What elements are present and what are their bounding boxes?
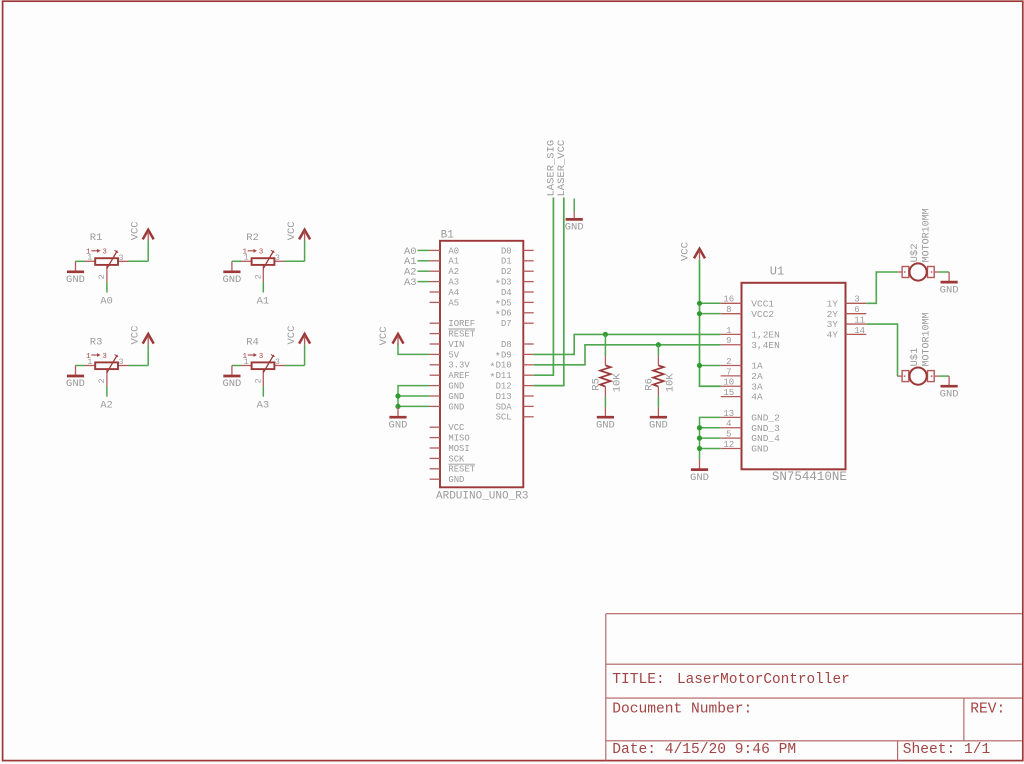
arduino pin D10 (right row 11) stub	[523, 364, 533, 366]
wire R6 bottom	[657, 396, 659, 407]
wire U1 pin 5 to GND	[700, 437, 721, 439]
motor U$2 left terminal stub	[897, 271, 902, 273]
svg-text:R6: R6	[644, 378, 656, 391]
wire VCC drop R2	[304, 241, 306, 262]
svg-text:7: 7	[726, 367, 731, 377]
potentiometer R3 pin 1 stub	[85, 365, 95, 367]
svg-text:R1: R1	[90, 232, 103, 244]
motor U$1 body circle	[910, 368, 927, 385]
arduino pin A5 (left row 5) stub	[430, 301, 440, 303]
wire VCC drop R4	[304, 345, 306, 366]
svg-text:2: 2	[254, 274, 263, 279]
power VCC symbol at R3	[143, 334, 154, 345]
svg-text:LaserMotorController: LaserMotorController	[677, 672, 850, 688]
potentiometer R1 pin 2 stub	[106, 265, 108, 282]
svg-text:AREF: AREF	[448, 371, 469, 381]
ground at U1	[690, 459, 709, 484]
junction GND at U1 pin 5	[697, 436, 702, 441]
svg-text:VCC: VCC	[286, 326, 298, 345]
svg-text:D9: D9	[501, 350, 512, 360]
svg-text:VCC: VCC	[130, 326, 142, 345]
svg-text:D10: D10	[496, 361, 512, 371]
svg-text:1,2EN: 1,2EN	[751, 330, 780, 341]
svg-text:GND: GND	[649, 419, 668, 431]
svg-text:ARDUINO_UNO_R3: ARDUINO_UNO_R3	[436, 490, 528, 502]
svg-text:GND: GND	[751, 444, 768, 455]
arduino pin D2 (right row 2) stub	[523, 270, 533, 272]
arduino pin A2 (left row 2) stub	[430, 270, 440, 272]
svg-text:1: 1	[244, 254, 249, 263]
arduino pin D6 (right row 6) stub	[523, 312, 533, 314]
U1 pin 15 (4A) stub	[721, 396, 742, 398]
svg-text:GND: GND	[448, 475, 464, 485]
motor U$2 right terminal	[928, 267, 935, 278]
svg-text:1Y: 1Y	[827, 298, 839, 309]
wire pot R1 pin3 to VCC	[128, 260, 148, 262]
svg-text:2Y: 2Y	[827, 309, 839, 320]
motor U$2 right terminal stub	[934, 271, 939, 273]
U1 pin 3 (1Y) stub	[846, 302, 867, 304]
svg-text:GND: GND	[222, 378, 241, 390]
svg-text:A2: A2	[100, 400, 113, 412]
svg-text:A5: A5	[448, 298, 459, 308]
wire net LASER_SIG (arduino D11 to label)	[534, 198, 554, 376]
svg-text:GND: GND	[690, 472, 709, 484]
wire R5 bottom	[604, 396, 606, 407]
svg-text:GND: GND	[565, 222, 584, 234]
svg-text:VCC: VCC	[680, 242, 692, 261]
U1 pin 2 (1A) stub	[721, 365, 742, 367]
U1 pin 12 (GND) stub	[721, 447, 742, 449]
svg-text:VIN: VIN	[448, 340, 464, 350]
svg-text:2A: 2A	[751, 371, 763, 382]
arduino pin A0 (left row 0) stub	[430, 249, 440, 251]
svg-text:12: 12	[723, 440, 734, 450]
junction at arduino GND row 15	[395, 404, 400, 409]
svg-text:MOSI: MOSI	[448, 444, 469, 454]
arduino pin GND (left row 15) stub	[430, 405, 440, 407]
svg-text:A2: A2	[448, 267, 459, 277]
arduino pin GND (left row 14) stub	[430, 395, 440, 397]
resistor R6 pin 2 stub	[657, 387, 659, 397]
wire net D9: arduino D9 to U1 pin 1 and R5	[534, 334, 721, 354]
junction at R5 top	[603, 332, 608, 337]
arduino pin MISO (left row 18) stub	[430, 437, 440, 439]
svg-text:1: 1	[87, 358, 92, 367]
wire U1 pin 12 to GND	[700, 447, 721, 449]
svg-text:3: 3	[275, 254, 280, 263]
svg-text:SCL: SCL	[496, 413, 512, 423]
svg-text:D2: D2	[501, 267, 512, 277]
svg-text:A0: A0	[100, 295, 113, 307]
svg-text:U$1: U$1	[909, 348, 921, 367]
junction at R6 top	[656, 342, 661, 347]
svg-text:14: 14	[854, 326, 865, 336]
svg-text:GND: GND	[389, 419, 408, 431]
svg-text:GND: GND	[222, 274, 241, 286]
potentiometer R3 body	[95, 362, 118, 369]
svg-text:3: 3	[119, 254, 124, 263]
svg-text:GND: GND	[596, 419, 615, 431]
potentiometer R3 pin 2 stub	[106, 369, 108, 386]
arduino pin D12 (right row 13) stub	[523, 385, 533, 387]
potentiometer R3 wiper	[107, 355, 117, 373]
arduino pin D8 (right row 9) stub	[523, 343, 533, 345]
arduino pin GND (left row 13) stub	[430, 385, 440, 387]
svg-text:A3: A3	[404, 277, 417, 289]
svg-text:D7: D7	[501, 319, 512, 329]
ground at R5	[596, 407, 615, 431]
svg-text:10K: 10K	[611, 373, 623, 393]
arduino pin D11 (right row 12) stub	[523, 374, 533, 376]
svg-text:B1: B1	[441, 230, 455, 242]
wire VCC rail at U1	[700, 260, 721, 386]
svg-text:10: 10	[723, 378, 734, 388]
svg-text:VCC1: VCC1	[751, 298, 774, 309]
svg-text:GND: GND	[448, 382, 464, 392]
arduino pin AREF (left row 12) stub	[430, 374, 440, 376]
svg-text:2: 2	[98, 274, 107, 279]
svg-text:IOREF: IOREF	[448, 319, 475, 329]
ground at motor U$1	[940, 376, 959, 400]
svg-text:A0: A0	[448, 246, 459, 256]
motor U$2 left terminal	[902, 267, 909, 278]
wire VCC drop R1	[147, 241, 149, 262]
wire arduino GND pin 2	[398, 395, 430, 397]
arduino pin MOSI (left row 19) stub	[430, 447, 440, 449]
power VCC symbol at arduino	[393, 334, 404, 345]
potentiometer R2 pin 1 stub	[241, 260, 251, 262]
junction at arduino GND row 14	[395, 393, 400, 398]
arduino pin RESET (left row 8) stub	[430, 333, 440, 335]
wire pot R2 pin3 to VCC	[285, 260, 305, 262]
wire pot R4 pin3 to VCC	[285, 365, 305, 367]
svg-text:4: 4	[726, 419, 731, 429]
wire VCC to U1 pin 16	[700, 302, 721, 304]
svg-text:4Y: 4Y	[827, 330, 839, 341]
potentiometer R4 wiper	[263, 355, 273, 373]
svg-text:GND: GND	[448, 402, 464, 412]
svg-text:GND: GND	[448, 392, 464, 402]
wire arduino GND pins bus	[398, 386, 430, 407]
U1 pin 13 (GND_2) stub	[721, 416, 742, 418]
wire net A2 to arduino	[418, 270, 430, 272]
potentiometer R2 wiper	[263, 251, 273, 269]
potentiometer R4 pin 2 stub	[262, 369, 264, 386]
svg-text:3: 3	[102, 249, 107, 257]
svg-text:3: 3	[119, 358, 124, 367]
wire U1 pin 4 to GND	[700, 427, 721, 429]
svg-text:R2: R2	[246, 232, 259, 244]
svg-text:GND_3: GND_3	[751, 423, 780, 434]
wire net A1 to arduino	[418, 260, 430, 262]
arduino pin D0 (right row 0) stub	[523, 249, 533, 251]
svg-text:D3: D3	[501, 278, 512, 288]
arduino pin A1 (left row 1) stub	[430, 260, 440, 262]
svg-text:GND: GND	[66, 378, 85, 390]
junction GND at U1 pin 12	[697, 446, 702, 451]
arduino pin SCL (right row 16) stub	[523, 416, 533, 418]
svg-text:GND: GND	[940, 284, 959, 296]
potentiometer R1 pin 3 stub	[118, 260, 128, 262]
potentiometer R1 body	[95, 258, 118, 265]
U1 pin 9 (3,4EN) stub	[721, 344, 742, 346]
svg-text:VCC: VCC	[378, 326, 390, 345]
U1 pin 6 (2Y) stub	[846, 313, 867, 315]
svg-text:SN754410NE: SN754410NE	[772, 470, 847, 484]
wire A2 net: pot R3 pin1 to GND	[76, 365, 86, 367]
svg-text:D12: D12	[496, 382, 512, 392]
wire VCC to U1 pin 2	[700, 365, 721, 367]
svg-text:Date: 4/15/20 9:46 PM: Date: 4/15/20 9:46 PM	[612, 742, 796, 758]
svg-text:1: 1	[726, 326, 731, 336]
ground at arduino	[389, 407, 408, 431]
wire A1 net: pot R2 pin1 to GND	[232, 260, 242, 262]
svg-text:MOTOR10MM: MOTOR10MM	[921, 208, 932, 262]
arduino pin A3 (left row 3) stub	[430, 281, 440, 283]
motor U$2 body circle	[910, 263, 927, 280]
U1 pin 16 (VCC1) stub	[721, 302, 742, 304]
svg-text:11: 11	[854, 315, 865, 325]
svg-text:1: 1	[244, 358, 249, 367]
svg-text:3.3V: 3.3V	[448, 361, 470, 371]
svg-text:SCK: SCK	[448, 454, 465, 464]
svg-text:5V: 5V	[448, 350, 459, 360]
ground at R4	[222, 366, 241, 391]
potentiometer R4 pin 1 stub	[241, 365, 251, 367]
power VCC symbol at U1	[694, 249, 705, 260]
potentiometer R1 wiper	[107, 251, 117, 269]
resistor R5 pin 1 stub	[604, 356, 606, 365]
junction VCC at U1 pin 16	[697, 301, 702, 306]
svg-text:R4: R4	[246, 336, 259, 348]
motor U$1 right terminal stub	[934, 375, 939, 377]
svg-text:5: 5	[726, 430, 731, 440]
U1 pin 1 (1,2EN) stub	[721, 333, 742, 335]
potentiometer R1 pin 1 stub	[85, 260, 95, 262]
svg-text:A3: A3	[448, 278, 459, 288]
svg-text:D1: D1	[501, 257, 512, 267]
svg-text:U$2: U$2	[909, 243, 921, 262]
ground at R2	[222, 261, 241, 286]
resistor R6 pin 1 stub	[657, 356, 659, 365]
ground at R6	[649, 407, 668, 431]
wire pot R3 pin3 to VCC	[128, 365, 148, 367]
svg-text:15: 15	[723, 388, 734, 398]
wire motor U$2 to GND	[939, 271, 949, 273]
arduino pin D4 (right row 4) stub	[523, 291, 533, 293]
motor U$1 left terminal stub	[897, 375, 902, 377]
svg-text:TITLE:: TITLE:	[612, 672, 665, 688]
junction VCC at U1 pin 2	[697, 363, 702, 368]
svg-text:D11: D11	[496, 371, 512, 381]
svg-text:RESET: RESET	[448, 330, 475, 340]
wire U1 output to motor U$1	[866, 324, 897, 376]
svg-text:3: 3	[259, 249, 264, 257]
U1 pin 7 (2A) stub	[721, 375, 742, 377]
svg-text:3: 3	[275, 358, 280, 367]
svg-text:MISO: MISO	[448, 434, 469, 444]
arduino pin IOREF (left row 7) stub	[430, 322, 440, 324]
potentiometer R2 body	[252, 258, 275, 265]
svg-text:MOTOR10MM: MOTOR10MM	[921, 312, 932, 366]
ground at R3	[66, 366, 85, 391]
wire net A0 to arduino	[418, 249, 430, 251]
svg-text:D4: D4	[501, 288, 512, 298]
svg-text:3: 3	[259, 353, 264, 361]
arduino pin VCC (left row 17) stub	[430, 426, 440, 428]
potentiometer R4 body	[252, 362, 275, 369]
wire VCC to arduino 5V pin	[398, 343, 430, 354]
svg-text:A3: A3	[257, 400, 270, 412]
wire pot R1 pin2 to label A0	[106, 282, 108, 293]
svg-text:3Y: 3Y	[827, 319, 839, 330]
svg-text:SDA: SDA	[496, 402, 513, 412]
potentiometer R3 pin 3 stub	[118, 365, 128, 367]
svg-text:GND: GND	[940, 388, 959, 400]
resistor R6 zigzag body	[653, 365, 664, 386]
svg-text:D0: D0	[501, 246, 512, 256]
svg-text:VCC2: VCC2	[751, 309, 774, 320]
U1 pin 5 (GND_4) stub	[721, 437, 742, 439]
arduino pin D3 (right row 3) stub	[523, 281, 533, 283]
resistor R5 zigzag body	[600, 365, 611, 386]
resistor R5 pin 2 stub	[604, 387, 606, 397]
wire R5 top	[604, 334, 606, 356]
svg-text:Sheet: 1/1: Sheet: 1/1	[903, 742, 991, 758]
U1 pin 14 (4Y) stub	[846, 333, 867, 335]
arduino pin SCK (left row 20) stub	[430, 457, 440, 459]
ground at motor U$2	[940, 272, 959, 296]
svg-text:RESET: RESET	[448, 465, 475, 475]
svg-text:3,4EN: 3,4EN	[751, 340, 780, 351]
power VCC symbol at R4	[299, 334, 310, 345]
wire pot R3 pin2 to label A2	[106, 386, 108, 397]
arduino pin VIN (left row 9) stub	[430, 343, 440, 345]
svg-text:3A: 3A	[751, 381, 763, 392]
svg-text:6: 6	[854, 305, 859, 315]
ground at R1	[66, 261, 85, 286]
wire pot R4 pin2 to label A3	[262, 386, 264, 397]
svg-text:16: 16	[723, 295, 734, 305]
svg-text:A4: A4	[448, 288, 459, 298]
svg-text:D8: D8	[501, 340, 512, 350]
arduino pin D5 (right row 5) stub	[523, 301, 533, 303]
junction GND at U1 pin 4	[697, 425, 702, 430]
svg-text:D5: D5	[501, 298, 512, 308]
svg-text:LASER_VCC: LASER_VCC	[556, 140, 568, 197]
svg-text:A1: A1	[257, 295, 270, 307]
potentiometer R4 pin 3 stub	[274, 365, 284, 367]
potentiometer R2 pin 3 stub	[274, 260, 284, 262]
motor U$1 right terminal	[928, 371, 935, 382]
wire net D10: arduino D10 to U1 pin 9 and R6	[534, 345, 721, 365]
svg-text:REV:: REV:	[970, 701, 1005, 717]
wire stub to GND symbol at arduino	[397, 406, 399, 407]
svg-text:1: 1	[87, 254, 92, 263]
ic U1 body	[742, 283, 846, 470]
arduino pin RESET (left row 21) stub	[430, 468, 440, 470]
svg-text:8: 8	[726, 305, 731, 315]
svg-text:2: 2	[98, 378, 107, 383]
motor U$1 left terminal	[902, 371, 909, 382]
wire net LASER_VCC (arduino D12 to label)	[534, 198, 564, 386]
svg-text:VCC: VCC	[286, 221, 298, 240]
U1 pin 8 (VCC2) stub	[721, 313, 742, 315]
title block frame	[606, 614, 1022, 761]
svg-text:3: 3	[854, 295, 859, 305]
svg-text:10K: 10K	[664, 373, 676, 393]
arduino B1 body	[440, 241, 523, 487]
potentiometer R2 pin 2 stub	[262, 265, 264, 282]
svg-text:GND: GND	[66, 274, 85, 286]
U1 pin 4 (GND_3) stub	[721, 427, 742, 429]
arduino pin D9 (right row 10) stub	[523, 353, 533, 355]
wire A3 net: pot R4 pin1 to GND	[232, 365, 242, 367]
svg-text:R5: R5	[591, 378, 603, 391]
ground at laser connector	[565, 212, 584, 234]
wire A0 net: pot R1 pin1 to GND	[76, 260, 86, 262]
svg-text:9: 9	[726, 336, 731, 346]
arduino pin D7 (right row 7) stub	[523, 322, 533, 324]
wire VCC to U1 pin 8	[700, 313, 721, 315]
svg-text:U1: U1	[770, 265, 784, 279]
wire laser ground stub	[573, 199, 575, 212]
svg-text:VCC: VCC	[448, 423, 464, 433]
arduino pin D13 (right row 14) stub	[523, 395, 533, 397]
svg-text:D6: D6	[501, 309, 512, 319]
junction VCC at U1 pin 8	[697, 311, 702, 316]
svg-text:1A: 1A	[751, 361, 763, 372]
wire U1 output to motor U$2	[866, 272, 897, 303]
wire net A3 to arduino	[418, 281, 430, 283]
arduino pin GND (left row 22) stub	[430, 478, 440, 480]
svg-text:GND_2: GND_2	[751, 412, 780, 423]
wire motor U$1 to GND	[939, 375, 949, 377]
svg-text:2: 2	[254, 378, 263, 383]
arduino pin A4 (left row 4) stub	[430, 291, 440, 293]
power VCC symbol at R2	[299, 230, 310, 241]
svg-text:Document Number:: Document Number:	[612, 701, 752, 717]
arduino pin 3.3V (left row 11) stub	[430, 364, 440, 366]
svg-text:D13: D13	[496, 392, 512, 402]
svg-text:R3: R3	[90, 336, 103, 348]
U1 pin 10 (3A) stub	[721, 385, 742, 387]
svg-text:2: 2	[726, 357, 731, 367]
svg-text:A1: A1	[448, 257, 459, 267]
svg-text:3: 3	[102, 353, 107, 361]
wire VCC drop R3	[147, 345, 149, 366]
svg-text:4A: 4A	[751, 392, 763, 403]
wire R6 top	[657, 345, 659, 356]
svg-text:VCC: VCC	[130, 221, 142, 240]
arduino pin 5V (left row 10) stub	[430, 353, 440, 355]
wire arduino GND pin 3	[398, 405, 430, 407]
svg-text:GND_4: GND_4	[751, 433, 780, 444]
wire GND rail at U1	[700, 417, 721, 459]
wire pot R2 pin2 to label A1	[262, 282, 264, 293]
U1 pin 11 (3Y) stub	[846, 323, 867, 325]
svg-text:13: 13	[723, 409, 734, 419]
power VCC symbol at R1	[143, 230, 154, 241]
arduino pin D1 (right row 1) stub	[523, 260, 533, 262]
arduino pin SDA (right row 15) stub	[523, 405, 533, 407]
